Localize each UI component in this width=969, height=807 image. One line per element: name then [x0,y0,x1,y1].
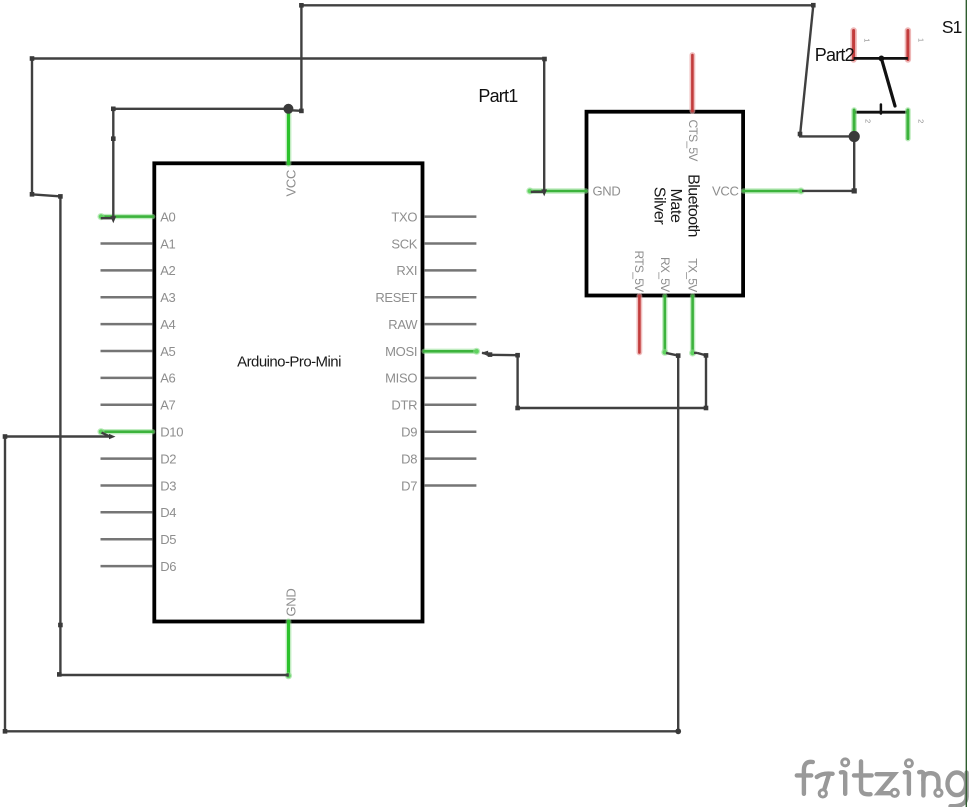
svg-text:MOSI: MOSI [385,344,417,359]
svg-text:Mate: Mate [667,189,684,223]
switch S1 pin 1 left (red) [850,31,856,60]
svg-text:D6: D6 [160,559,176,574]
bendpoint: VCC wire corner at (113,109) [111,107,116,112]
svg-text:Part2: Part2 [815,45,855,65]
svg-text:SCK: SCK [391,236,417,251]
svg-text:D5: D5 [160,532,176,547]
svg-text:RESET: RESET [375,290,417,305]
pin A3 (Arduino left) [101,290,176,305]
bendpoint: GND wire corner bottom-left [57,672,62,677]
pin SCK (Arduino right) [391,236,476,251]
pin D2 (Arduino left) [101,451,177,466]
pin D4 (Arduino left) [101,505,177,520]
svg-text:A6: A6 [160,371,175,386]
svg-text:1: 1 [863,38,872,42]
svg-text:A2: A2 [160,263,175,278]
bendpoint: MOSI wire corner top [515,353,520,358]
pin RESET (Arduino right) [375,290,476,305]
pin DTR (Arduino right) [391,398,476,413]
wire: Arduino D10 to Bluetooth RX_5V, bottom route [4,353,679,732]
svg-text:A7: A7 [160,398,175,413]
pin D8 (Arduino right) [401,451,476,466]
svg-text:2: 2 [916,119,925,123]
svg-text:A4: A4 [160,317,175,332]
switch S1 lever [881,58,895,106]
switch S1 pin 2 left (green) [851,110,857,133]
pin A7 (Arduino left) [101,398,176,413]
switch S1 pin 1 right (red) [905,31,911,60]
pin VCC (Arduino top) [284,113,299,197]
bendpoint: D10 wire corner bottom-left [3,729,8,734]
wire VCC net: switch junction down to Bluetooth VCC [802,136,855,191]
bendpoint: MOSI wire near pin [488,352,493,357]
pin CTS_5V (Bluetooth top, red) [686,55,700,161]
pin MOSI (Arduino right) [385,344,480,359]
svg-text:2: 2 [864,119,873,123]
bendpoint: VCC wire corner below diagonal [798,132,803,137]
svg-text:A0: A0 [160,209,175,224]
Arduino-Pro-Mini U1 box [154,163,422,621]
bendpoint: VCC wire at (113,139) [111,136,116,141]
svg-text:D4: D4 [160,505,176,520]
pin D7 (Arduino right) [401,478,476,493]
pin TXO (Arduino right) [391,209,476,224]
pin TX_5V (Bluetooth bottom, green) [686,258,700,356]
svg-text:D10: D10 [160,425,183,440]
pin GND (Bluetooth left) [526,184,620,199]
bendpoint: VCC wire corner above junction [299,109,304,114]
svg-text:Bluetooth: Bluetooth [685,174,702,237]
switch S1 bottom bar [854,111,908,114]
pin A2 (Arduino left) [101,263,176,278]
bendpoint: GND wire mid-left [58,623,63,628]
svg-text:MISO: MISO [385,371,417,386]
switch S1 top bar [854,57,908,60]
svg-text:S1: S1 [942,17,962,37]
pin D6 (Arduino left) [101,559,177,574]
junction: RX wire corner bottom-right [675,728,681,734]
switch S1 pin 2 right (green) [905,110,911,139]
bendpoint: MOSI wire corner bottom-left [515,406,520,411]
svg-text:Silver: Silver [651,187,668,226]
svg-text:Arduino-Pro-Mini: Arduino-Pro-Mini [237,354,341,371]
bendpoint: GND wire corner at (32,194) [30,192,35,197]
pin D3 (Arduino left) [101,478,177,493]
svg-text:A1: A1 [160,236,175,251]
svg-text:A3: A3 [160,290,175,305]
svg-text:D3: D3 [160,478,176,493]
wire VCC net: horizontal to A0 branch [101,108,289,223]
svg-text:VCC: VCC [712,184,739,199]
pin RX_5V (Bluetooth bottom, green) [658,257,672,356]
svg-text:D7: D7 [401,478,417,493]
wire VCC net: top rail up/right to switch [300,4,854,136]
pin A5 (Arduino left) [101,344,176,359]
pin RTS_5V (Bluetooth bottom, red) [632,251,646,353]
bendpoint: MOSI wire corner bottom-right [704,406,709,411]
svg-text:RXI: RXI [396,263,417,278]
bendpoint: MOSI wire corner top-right [704,353,709,358]
svg-text:RX_5V: RX_5V [658,257,672,292]
svg-text:CTS_5V: CTS_5V [686,120,700,162]
wire GND net: Arduino GND to Bluetooth GND, left/top route [31,58,547,677]
svg-text:D9: D9 [401,425,417,440]
bendpoint: VCC wire corner right of Bluetooth VCC [852,188,857,193]
svg-text:DTR: DTR [391,398,417,413]
pin D9 (Arduino right) [401,425,476,440]
pin GND (Arduino bottom) [284,589,299,680]
label Bluetooth Mate Silver [651,174,702,237]
pin RXI (Arduino right) [396,263,476,278]
right edge green border line [965,0,967,807]
pin RAW (Arduino right) [388,317,476,332]
wire: Arduino MOSI to Bluetooth TX_5V [482,351,708,409]
bendpoint: GND wire corner near Bluetooth [542,57,547,62]
pin D5 (Arduino left) [101,532,177,547]
pin A1 (Arduino left) [101,236,176,251]
svg-text:D2: D2 [160,451,176,466]
svg-text:1: 1 [917,38,926,42]
bendpoint: D10 wire corner left [3,434,8,439]
switch S1 contact tick [880,105,883,114]
pin A4 (Arduino left) [101,317,176,332]
svg-text:A5: A5 [160,344,175,359]
wire VCC net: junction jog to top rail [288,109,301,112]
pin MISO (Arduino right) [385,371,476,386]
svg-text:TXO: TXO [391,209,417,224]
svg-text:TX_5V: TX_5V [686,258,700,292]
svg-text:GND: GND [593,184,621,199]
svg-text:Part1: Part1 [478,86,518,106]
svg-text:VCC: VCC [284,170,299,197]
svg-text:GND: GND [284,589,299,617]
Bluetooth Mate Silver U2 box [587,112,744,296]
pin A6 (Arduino left) [101,371,176,386]
junction: VCC net at Arduino VCC pin [283,104,293,114]
bendpoint: RX wire near pin [676,353,681,358]
junction: VCC net at switch pin 2 [849,131,860,142]
bendpoint: VCC wire top-right corner [811,3,816,8]
pin VCC (Bluetooth right) [712,184,805,199]
bendpoint: GND wire corner top-left [30,56,35,61]
pin A0 (Arduino left) [97,209,175,224]
bendpoint: GND wire corner at (60,196) [58,194,63,199]
svg-text:RAW: RAW [388,317,418,332]
pin D10 (Arduino left) [97,425,183,440]
svg-text:D8: D8 [401,451,417,466]
fritzing watermark [797,759,967,806]
switch S1 pivot dot [879,56,885,62]
svg-text:RTS_5V: RTS_5V [632,251,646,293]
bendpoint: VCC wire top-left corner [299,3,304,8]
